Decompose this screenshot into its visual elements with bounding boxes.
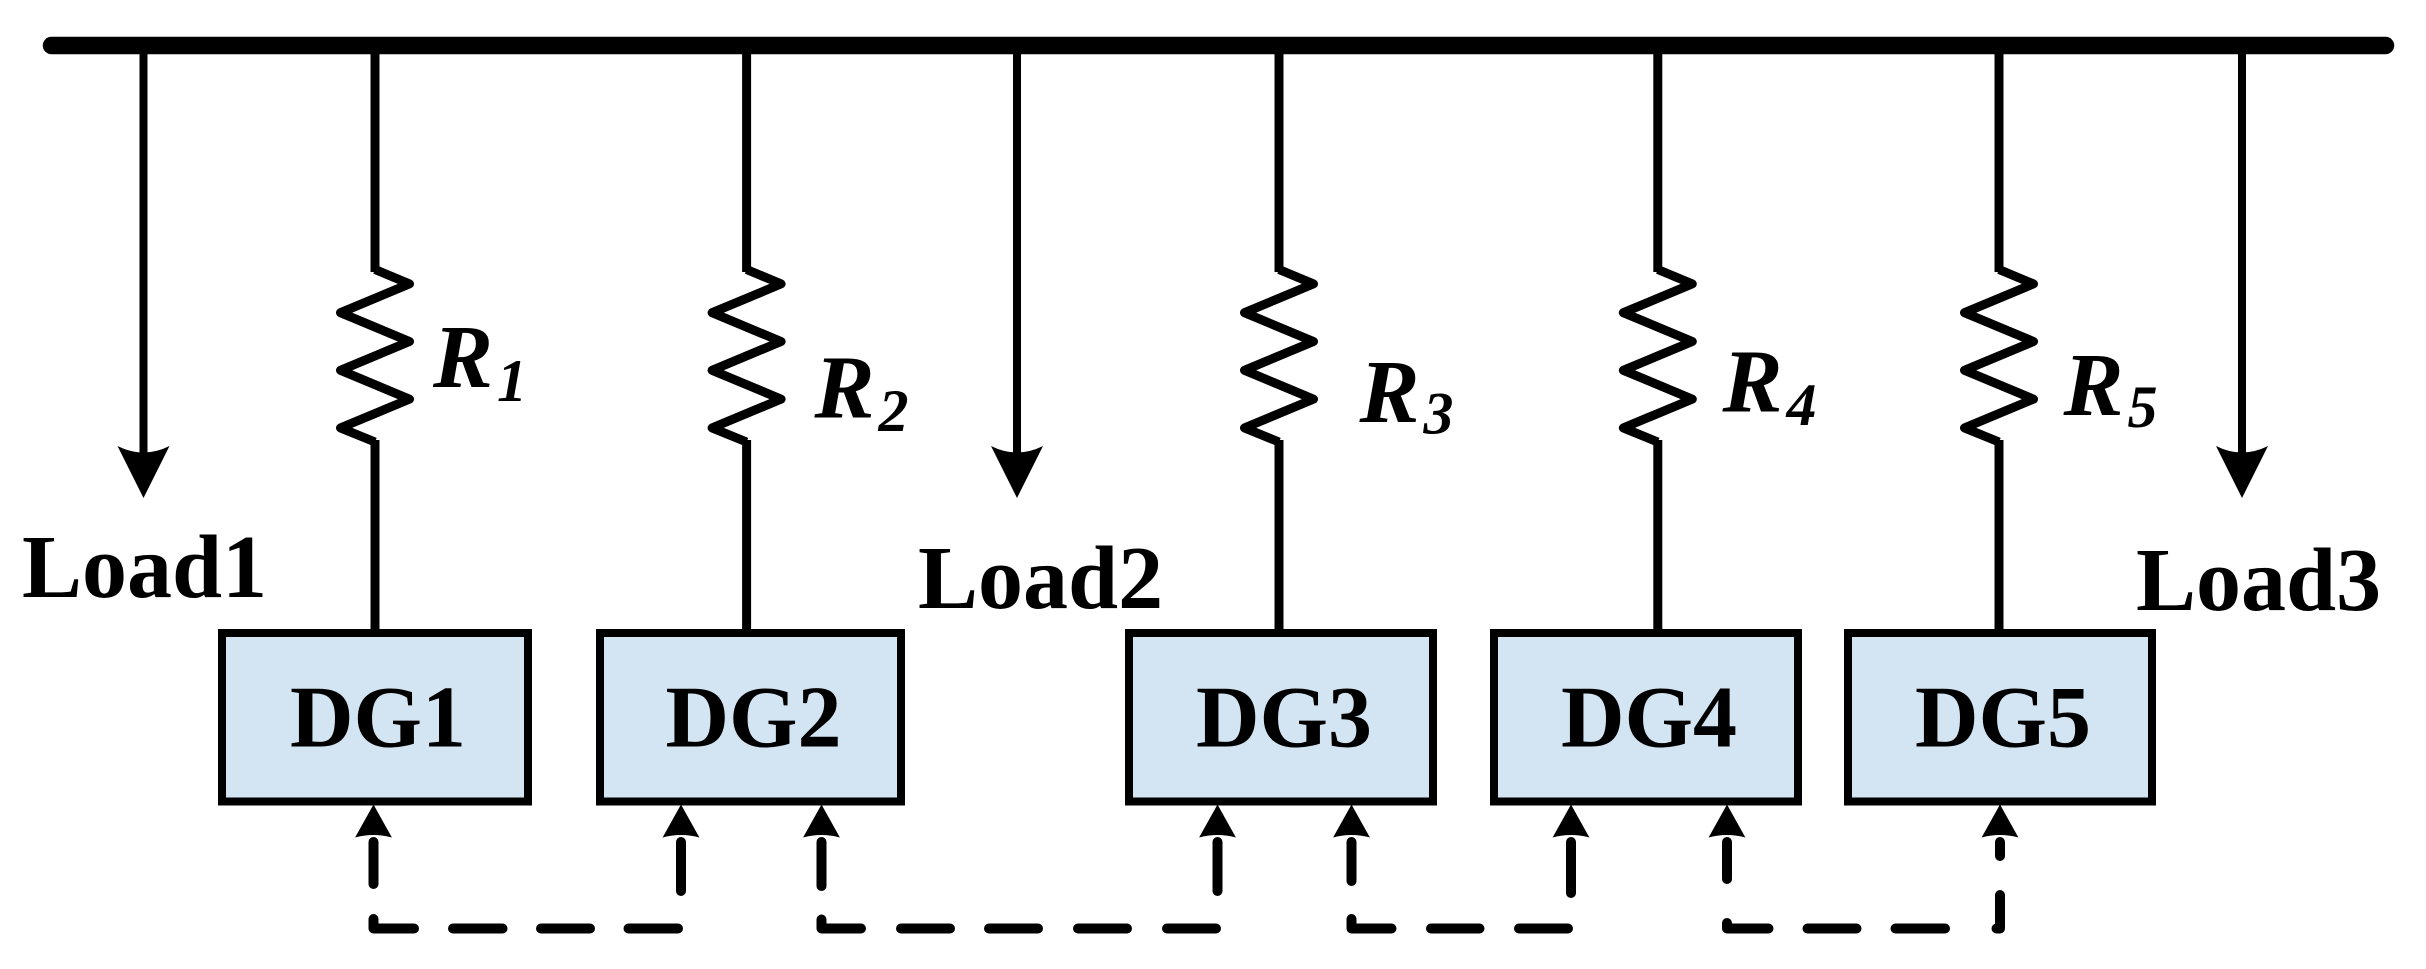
comm arrow shaft under DG2 right	[817, 842, 827, 886]
comm corner under DG1	[374, 919, 415, 929]
resistor R3	[1245, 270, 1314, 443]
DG5 box	[1848, 633, 2152, 802]
comm arrowhead into DG4 right	[1709, 805, 1746, 838]
svg-text:Load2: Load2	[918, 529, 1163, 628]
bus bar	[52, 37, 2386, 55]
wire bus to resistor R4	[1653, 45, 1662, 272]
DG2 box	[600, 633, 901, 802]
comm arrowhead into DG4 left	[1553, 805, 1590, 838]
wire bus to resistor R2	[742, 45, 751, 272]
comm corner under DG2 right	[822, 920, 862, 929]
comm corner under DG5	[1997, 895, 2001, 929]
DG4 box	[1494, 633, 1798, 802]
wire bus to resistor R5	[1995, 45, 2004, 272]
comm arrowhead into DG2 right	[803, 805, 840, 838]
wire bus to resistor R3	[1275, 45, 1284, 272]
comm arrow shaft under DG4 left	[1566, 842, 1576, 893]
load branch Load2 arrowhead	[991, 446, 1043, 498]
comm dash	[1431, 924, 1480, 934]
DG1 box	[222, 633, 528, 802]
load branch Load3 wire	[2238, 45, 2246, 466]
comm dash	[1896, 924, 1946, 934]
resistor R4	[1623, 270, 1692, 443]
comm dash	[1519, 924, 1568, 934]
comm arrow shaft under DG1	[369, 842, 379, 884]
load branch Load3 arrowhead	[2216, 446, 2268, 498]
wire resistor R4 to DG4	[1653, 440, 1662, 633]
resistor R5	[1965, 270, 2034, 443]
svg-text:DG3: DG3	[1196, 670, 1372, 767]
comm arrowhead into DG1	[355, 805, 392, 838]
comm dash	[453, 924, 503, 934]
comm dash	[1167, 924, 1216, 934]
comm arrowhead into DG2 left	[663, 805, 700, 838]
wire resistor R1 to DG1	[371, 440, 380, 633]
comm dash	[1078, 924, 1127, 934]
svg-text:Load1: Load1	[22, 518, 267, 617]
wire resistor R5 to DG5	[1995, 440, 2004, 633]
comm corner under DG3 right	[1352, 919, 1392, 929]
comm arrowhead into DG3 left	[1199, 805, 1236, 838]
comm arrow shaft under DG5	[1995, 842, 2005, 856]
comm arrow shaft under DG2 left	[676, 842, 686, 891]
load branch Load1 arrowhead	[118, 446, 170, 498]
svg-text:DG5: DG5	[1915, 670, 2091, 767]
wire bus to resistor R1	[371, 45, 380, 272]
comm dash	[629, 924, 679, 934]
comm dash	[901, 924, 950, 934]
resistor R2	[712, 270, 781, 443]
comm arrow shaft under DG3 left	[1213, 842, 1223, 891]
svg-text:Load3: Load3	[2136, 531, 2381, 630]
load branch Load1 wire	[140, 45, 148, 466]
wire resistor R3 to DG3	[1275, 440, 1284, 633]
svg-text:DG1: DG1	[290, 670, 466, 767]
comm dash	[1808, 924, 1857, 934]
resistor R1	[341, 270, 410, 443]
svg-text:DG2: DG2	[666, 670, 842, 767]
comm dash	[541, 924, 590, 934]
comm dash	[989, 924, 1038, 934]
comm corner under DG4 right	[1727, 923, 1769, 929]
svg-text:DG4: DG4	[1561, 670, 1737, 767]
comm arrow shaft under DG3 right	[1347, 842, 1357, 881]
comm arrow shaft under DG4 right	[1722, 842, 1732, 879]
comm arrowhead into DG3 right	[1333, 805, 1370, 838]
wire resistor R2 to DG2	[742, 440, 751, 633]
comm arrowhead into DG5	[1982, 805, 2019, 838]
load branch Load2 wire	[1013, 45, 1021, 466]
DG3 box	[1129, 633, 1433, 802]
